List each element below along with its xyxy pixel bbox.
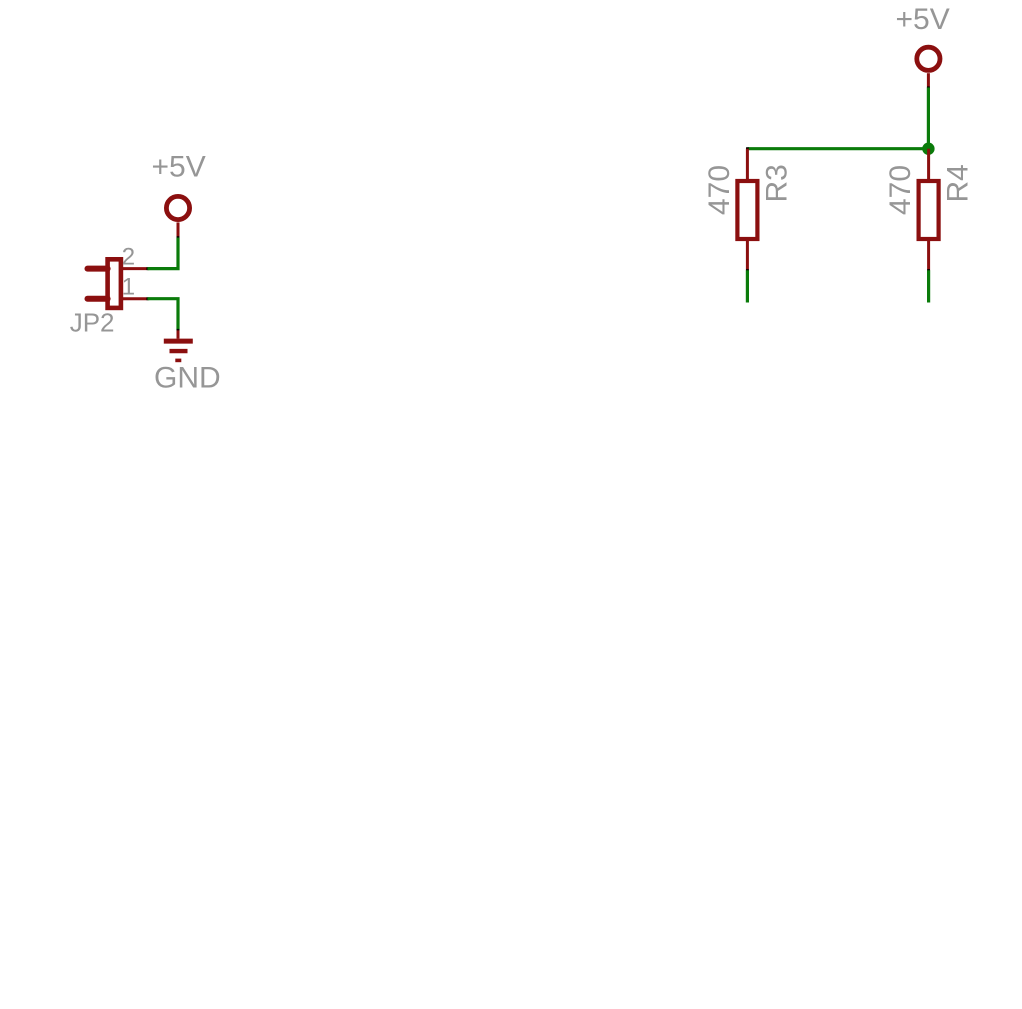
svg-text:R3: R3: [761, 164, 794, 202]
svg-text:470: 470: [884, 165, 917, 215]
wire R3 to LED1: [746, 270, 749, 302]
svg-text:470: 470: [703, 165, 736, 215]
wire JP2 pin2 to +5V: [148, 238, 179, 269]
ground GND (below JP2): [154, 330, 221, 394]
junction node R3/R4/+5V: [922, 143, 934, 155]
resistor R3: [737, 149, 757, 272]
wire JP2 pin1 to GND: [148, 299, 179, 331]
resistor R4: [919, 149, 939, 272]
svg-text:+5V: +5V: [152, 151, 206, 184]
svg-text:1: 1: [122, 274, 135, 301]
svg-text:2: 2: [122, 243, 135, 270]
wire R4 to LED2: [927, 270, 930, 302]
supply +5V P1 (top left, above JP2): [152, 151, 206, 240]
svg-text:JP2: JP2: [70, 308, 115, 338]
svg-text:R4: R4: [942, 164, 975, 202]
supply +5V P2 (top right): [896, 3, 950, 89]
svg-text:GND: GND: [154, 362, 221, 395]
wire +5V to R3/R4 node: [747, 88, 928, 149]
connector JP2: [88, 259, 150, 308]
svg-text:+5V: +5V: [896, 3, 950, 36]
